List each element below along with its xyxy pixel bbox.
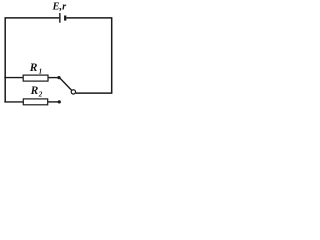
resistor R2 box — [23, 99, 47, 105]
wire: R1 branch right segment — [48, 77, 59, 79]
switch pivot circle — [71, 90, 75, 94]
svg-text:R: R — [29, 62, 38, 74]
wire: top right segment from battery to right corner — [66, 17, 111, 19]
wire: right vertical down to switch common line — [111, 17, 113, 93]
wire: top left segment to battery — [5, 17, 60, 19]
svg-text:R: R — [30, 85, 39, 97]
wire: left vertical from top-left corner down to R2 branch — [4, 18, 6, 102]
resistor R1 box — [23, 75, 48, 81]
node: R2 contact dot — [58, 100, 61, 103]
wire: R1 branch left segment — [4, 77, 23, 79]
wire: R2 branch right segment — [48, 101, 60, 103]
wire: switch common horizontal line to pivot — [76, 92, 113, 94]
battery E,r short thick plate — [64, 16, 66, 21]
svg-text:1: 1 — [39, 68, 43, 76]
svg-text:2: 2 — [38, 90, 43, 98]
node: R1 contact dot — [57, 76, 60, 79]
battery E,r long plate — [59, 13, 61, 23]
wire: R2 branch left segment — [4, 101, 23, 103]
svg-text:E,r: E,r — [52, 2, 68, 13]
switch blade from R1 contact to pivot — [60, 78, 72, 90]
